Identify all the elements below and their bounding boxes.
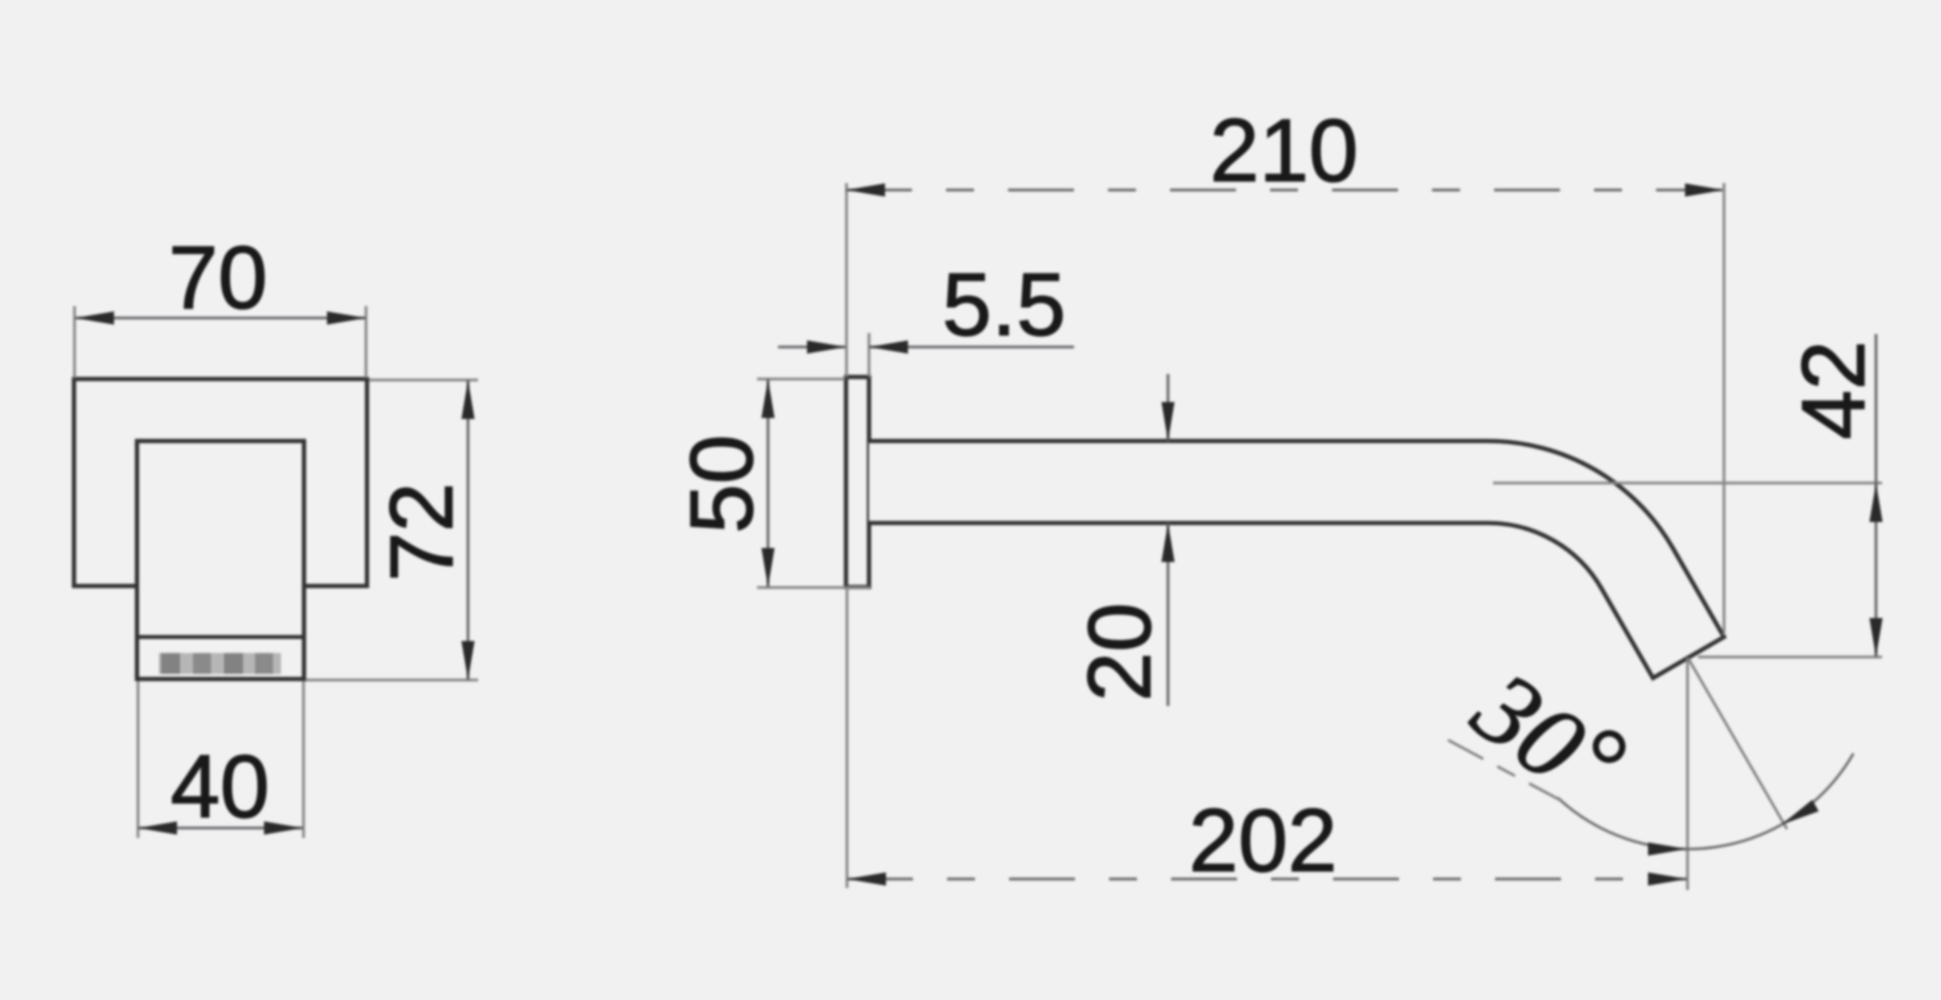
dimension 50 extension lines <box>757 378 845 381</box>
dimension 40 extension lines <box>137 681 140 838</box>
dimension 72 extension lines <box>369 379 478 382</box>
dimension 202 extension lines <box>846 588 849 888</box>
dimension 72 arrows <box>461 380 474 419</box>
svg-text:72: 72 <box>371 483 471 582</box>
wall flange (side view) <box>846 377 869 587</box>
dimension 50 line <box>767 379 770 587</box>
dimension 70 extension lines <box>73 306 76 378</box>
dimension 5.5 lines <box>778 346 846 349</box>
dimension 40 arrows <box>138 821 177 834</box>
dimension 202 line <box>847 878 1687 881</box>
dimension 210 line <box>846 189 1724 192</box>
svg-text:70: 70 <box>169 227 268 327</box>
svg-text:20: 20 <box>1069 603 1169 702</box>
dimension 40 line <box>138 827 303 830</box>
svg-text:50: 50 <box>671 435 771 534</box>
dimension 50 arrows <box>761 379 774 418</box>
spout body (front view) <box>137 441 304 679</box>
dimension 202 arrows <box>847 872 886 885</box>
dimension 5.5 extension line <box>868 333 871 377</box>
spout tube (side view) <box>869 441 1724 678</box>
dimension 72 line <box>467 380 470 680</box>
angle leader line <box>1448 740 1560 800</box>
wall plate (front view) <box>74 379 367 586</box>
dimension 210 arrows <box>846 183 885 196</box>
angle arc arrows <box>1648 842 1687 855</box>
svg-text:5.5: 5.5 <box>942 254 1066 354</box>
dimension 70 line <box>75 317 366 320</box>
dimension 42 arrows <box>1869 483 1882 522</box>
angle arc 30 degrees <box>1558 754 1854 850</box>
dimension 20 lines <box>1167 374 1170 441</box>
dimension 20 arrows <box>1161 402 1174 441</box>
dimension 210 extension lines <box>845 183 848 377</box>
dimension 42 reference lines <box>1493 482 1882 485</box>
dimension 70 arrows <box>75 311 114 324</box>
svg-text:202: 202 <box>1189 790 1338 890</box>
aerator mesh strip <box>159 653 281 674</box>
dimension 5.5 arrows <box>807 340 846 353</box>
dimension 42 line <box>1875 334 1878 657</box>
svg-text:40: 40 <box>171 736 270 836</box>
svg-text:42: 42 <box>1783 341 1883 440</box>
aerator cap line <box>137 635 304 639</box>
spout axis line 30 degrees <box>1688 658 1787 829</box>
svg-text:210: 210 <box>1210 100 1359 200</box>
